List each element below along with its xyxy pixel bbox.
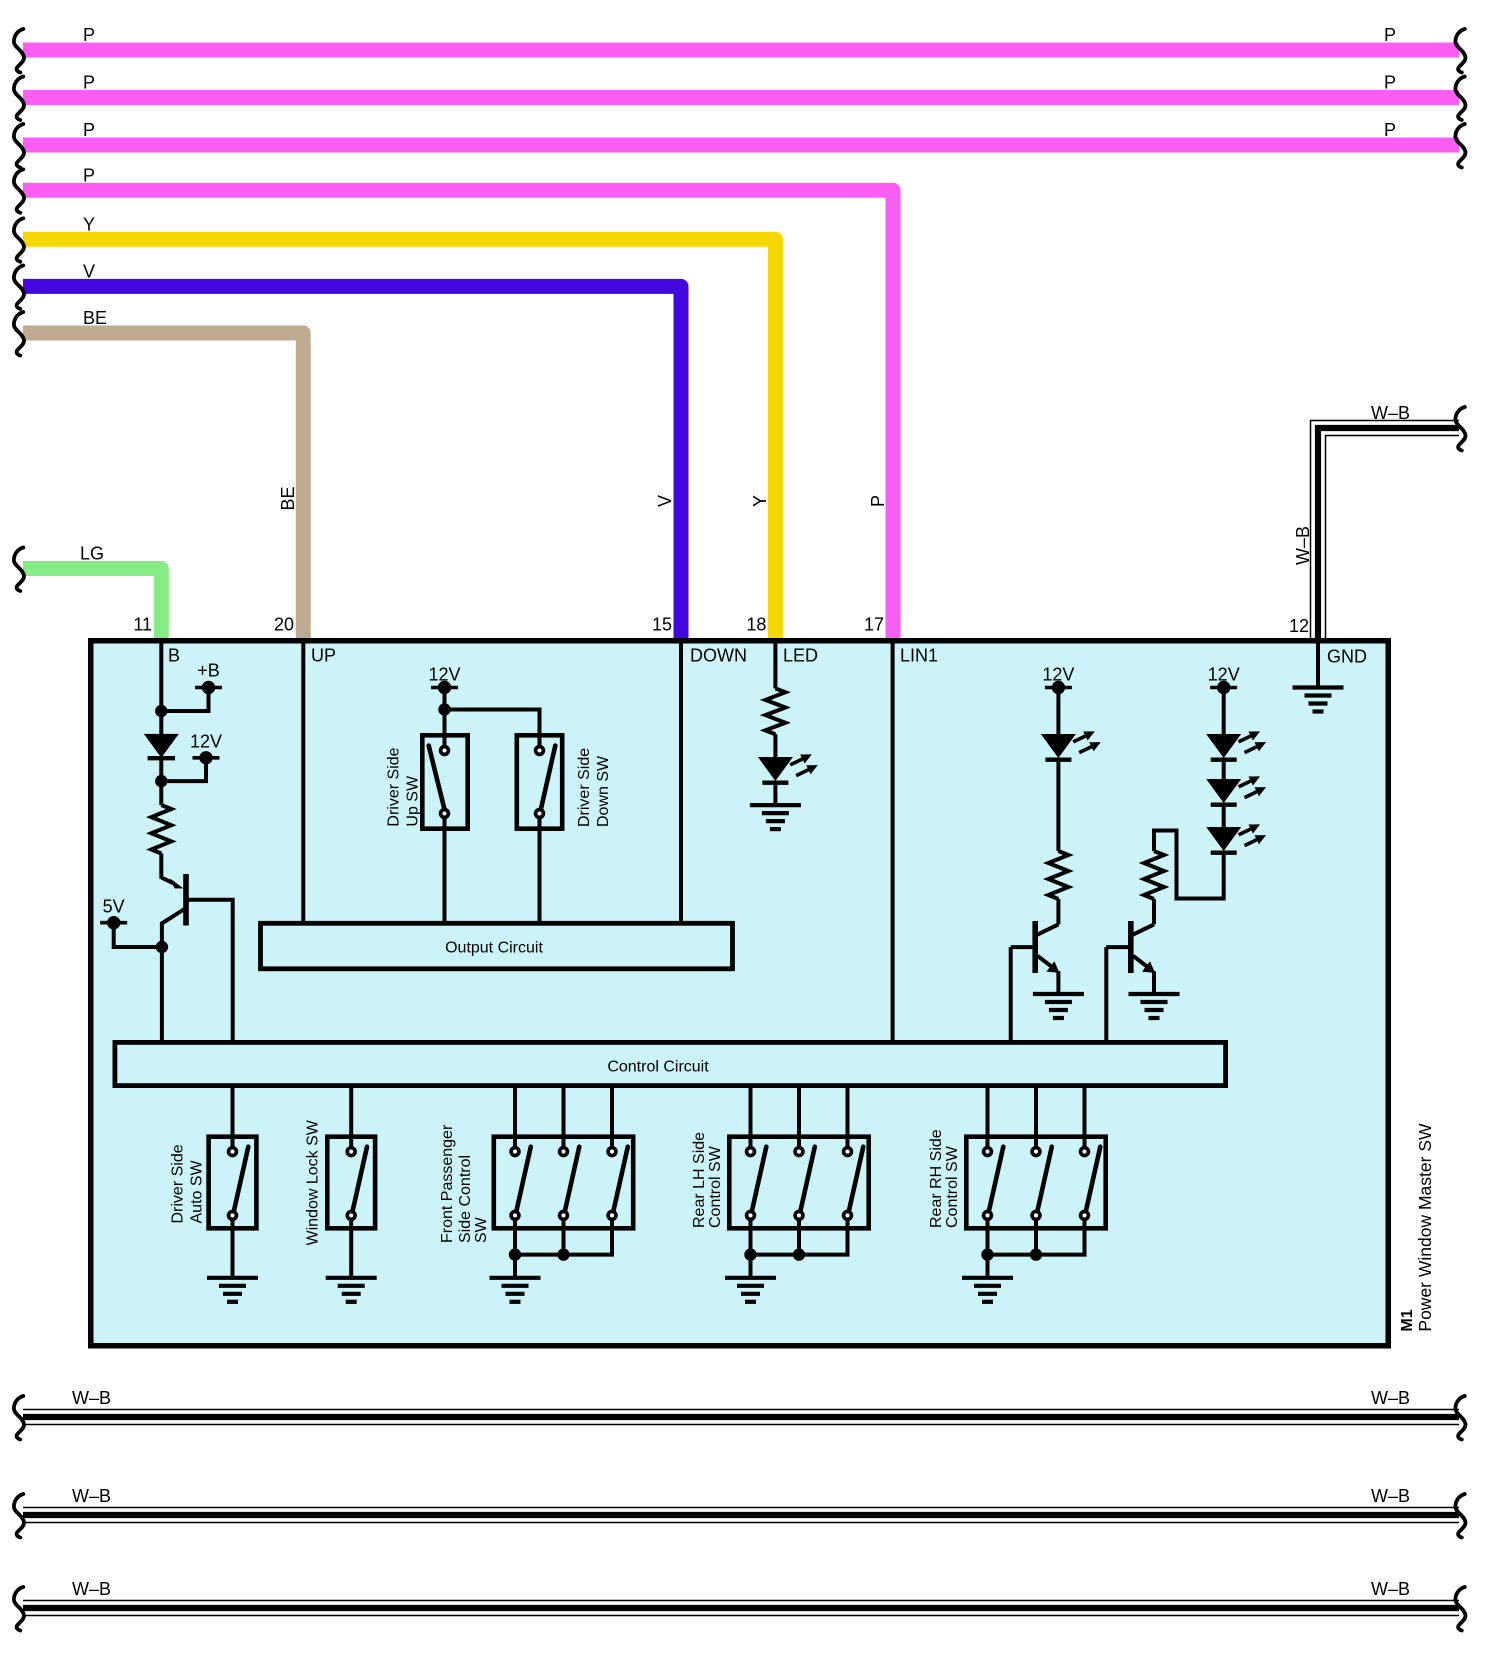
svg-text:Y: Y — [83, 214, 95, 234]
wire V to pin 15 — [23, 286, 681, 640]
wire P horizontal #3 — [23, 138, 1459, 153]
svg-text:W–B: W–B — [72, 1486, 111, 1506]
svg-text:Driver Side: Driver Side — [576, 748, 593, 827]
switch Rear RH Side Control SW — [986, 1087, 990, 1146]
wire resistor to transistor — [159, 854, 163, 879]
wire pin18 LED — [773, 641, 777, 688]
switch Driver Side Down SW — [517, 735, 562, 828]
ground (GND pin) — [1293, 685, 1344, 689]
svg-text:Down SW: Down SW — [595, 755, 612, 827]
svg-text:12V: 12V — [1208, 665, 1240, 685]
svg-text:P: P — [83, 73, 95, 93]
wire LED chain to resistor (routed) — [1154, 831, 1224, 899]
node junction 12V (B section) — [155, 775, 167, 787]
svg-text:5V: 5V — [103, 896, 125, 916]
svg-text:Rear RH Side: Rear RH Side — [928, 1129, 945, 1228]
wire diode to resistor — [159, 758, 163, 805]
wire P horizontal #2 — [23, 90, 1459, 105]
svg-text:LIN1: LIN1 — [900, 646, 938, 666]
svg-text:18: 18 — [746, 615, 766, 635]
resistor (LED section) — [765, 688, 785, 734]
terminal 12V (B section) — [161, 759, 206, 781]
svg-text:Y: Y — [750, 495, 770, 507]
wire W-B horizontal #3 — [23, 1600, 1459, 1617]
wire P horizontal #1 — [23, 43, 1459, 58]
wire W-B horizontal #1 — [23, 1409, 1459, 1426]
svg-text:12V: 12V — [190, 732, 222, 752]
wire pin11 B — [159, 641, 163, 735]
box Control Circuit — [115, 1042, 1226, 1085]
wire BE to pin 20 — [23, 333, 303, 640]
LED diode — [758, 757, 793, 781]
wire Q2 emitter to ground — [1056, 971, 1060, 994]
svg-text:W–B: W–B — [1371, 1579, 1410, 1599]
svg-text:+B: +B — [197, 661, 220, 681]
svg-text:W–B: W–B — [72, 1388, 111, 1408]
resistor (LIN1 left) — [1048, 851, 1068, 899]
wire LED to ground — [773, 783, 777, 805]
svg-text:Control SW: Control SW — [707, 1145, 724, 1228]
svg-text:Control SW: Control SW — [944, 1145, 961, 1228]
svg-text:SW: SW — [473, 1216, 490, 1243]
svg-text:12V: 12V — [428, 665, 460, 685]
switch Driver Side Auto SW — [231, 1087, 235, 1146]
switch Window Lock SW — [349, 1087, 353, 1146]
svg-text:UP: UP — [311, 646, 336, 666]
block M1 Power Window Master SW — [91, 641, 1389, 1346]
terminal +B — [161, 689, 208, 711]
svg-text:P: P — [868, 495, 888, 507]
svg-text:LED: LED — [783, 646, 818, 666]
svg-text:17: 17 — [864, 615, 884, 635]
transistor Q1 (B section, PNP) — [183, 874, 189, 926]
svg-text:M1: M1 — [1399, 1309, 1416, 1331]
svg-text:P: P — [83, 25, 95, 45]
wire pin15 DOWN divider — [679, 641, 683, 921]
wire Q1 base to control circuit — [189, 900, 233, 1040]
wire P to pin 17 — [23, 190, 893, 640]
svg-text:Driver Side: Driver Side — [386, 747, 403, 826]
svg-text:B: B — [168, 646, 180, 666]
wire junction to control circuit — [160, 947, 164, 1040]
node junction 12V UP — [438, 703, 450, 715]
wire Q2 base to control circuit — [1009, 947, 1013, 1040]
terminal 12V (LIN1 right) — [1210, 686, 1237, 690]
svg-text:12: 12 — [1289, 616, 1309, 636]
LED indicator 1 (LIN1 right) — [1206, 734, 1241, 758]
wire Q3 base to control circuit — [1104, 947, 1108, 1040]
wire Up SW to output circuit — [443, 819, 447, 921]
svg-text:Window Lock SW: Window Lock SW — [305, 1119, 322, 1245]
svg-text:W–B: W–B — [72, 1579, 111, 1599]
wire Down SW to output circuit — [538, 819, 542, 921]
svg-text:Control Circuit: Control Circuit — [607, 1059, 709, 1076]
ground (LIN1 left) — [1033, 992, 1084, 996]
svg-text:Driver Side: Driver Side — [170, 1144, 187, 1223]
LED indicator 2 (LIN1 right) — [1206, 779, 1241, 803]
resistor (B section) — [151, 805, 171, 854]
switch Rear LH Side Control SW — [749, 1087, 753, 1146]
svg-text:LG: LG — [80, 544, 104, 564]
wire pin17 LIN1 divider — [891, 641, 895, 1040]
svg-text:Side Control: Side Control — [457, 1155, 474, 1243]
box Output Circuit — [261, 923, 733, 969]
wire resistor to Q3 — [1152, 899, 1156, 924]
switch Front Passenger Side Control SW — [513, 1087, 517, 1146]
svg-text:V: V — [655, 495, 675, 507]
svg-text:15: 15 — [652, 615, 672, 635]
svg-text:BE: BE — [83, 308, 107, 328]
wire LED to resistor — [1056, 760, 1060, 851]
wire Y to pin 18 — [23, 239, 775, 640]
svg-text:P: P — [1384, 73, 1396, 93]
transistor Q2 (LIN1 left, NPN) — [1032, 921, 1038, 973]
node junction +B — [155, 705, 167, 717]
wire pin12 GND — [1316, 641, 1320, 688]
svg-text:V: V — [83, 261, 95, 281]
wire pin20 UP divider — [301, 641, 305, 921]
svg-text:Up SW: Up SW — [405, 775, 422, 827]
svg-text:P: P — [1384, 25, 1396, 45]
svg-text:BE: BE — [278, 486, 298, 510]
svg-text:Output Circuit: Output Circuit — [445, 940, 543, 957]
terminal 12V (UP section) — [431, 686, 458, 690]
svg-text:DOWN: DOWN — [690, 646, 747, 666]
svg-text:W–B: W–B — [1371, 1388, 1410, 1408]
wire W-B to pin 12 — [1318, 428, 1459, 640]
svg-text:P: P — [1384, 120, 1396, 140]
switch Driver Side Up SW — [422, 735, 467, 828]
diode D (B section) — [144, 734, 179, 758]
svg-text:Auto SW: Auto SW — [189, 1159, 206, 1223]
svg-text:12V: 12V — [1042, 665, 1074, 685]
svg-text:GND: GND — [1327, 647, 1367, 667]
svg-text:W–B: W–B — [1293, 526, 1313, 565]
LED indicator (LIN1 left) — [1041, 734, 1076, 758]
svg-text:11: 11 — [133, 615, 152, 635]
svg-text:P: P — [83, 120, 95, 140]
ground (LED section) — [750, 803, 801, 807]
resistor (LIN1 right) — [1144, 851, 1164, 899]
svg-text:Rear LH Side: Rear LH Side — [691, 1132, 708, 1228]
wire to Driver Side Down SW — [445, 710, 540, 746]
svg-text:P: P — [83, 165, 95, 185]
terminal 5V — [100, 921, 127, 925]
wire LG to pin 11 — [23, 569, 161, 641]
wire resistor to Q2 — [1056, 899, 1060, 924]
wire W-B horizontal #2 — [23, 1507, 1459, 1524]
svg-text:W–B: W–B — [1371, 403, 1410, 423]
wire Q3 emitter to ground — [1152, 971, 1156, 994]
svg-text:Power Window Master SW: Power Window Master SW — [1415, 1123, 1435, 1332]
LED indicator 3 (LIN1 right) — [1206, 827, 1241, 851]
transistor Q3 (LIN1 right, NPN) — [1128, 921, 1134, 973]
svg-text:Front Passenger: Front Passenger — [439, 1124, 456, 1243]
ground (LIN1 right) — [1129, 992, 1180, 996]
svg-text:W–B: W–B — [1371, 1486, 1410, 1506]
terminal 12V (LIN1 left) — [1045, 686, 1072, 690]
node junction 5V/collector — [156, 941, 168, 953]
svg-text:20: 20 — [274, 615, 294, 635]
